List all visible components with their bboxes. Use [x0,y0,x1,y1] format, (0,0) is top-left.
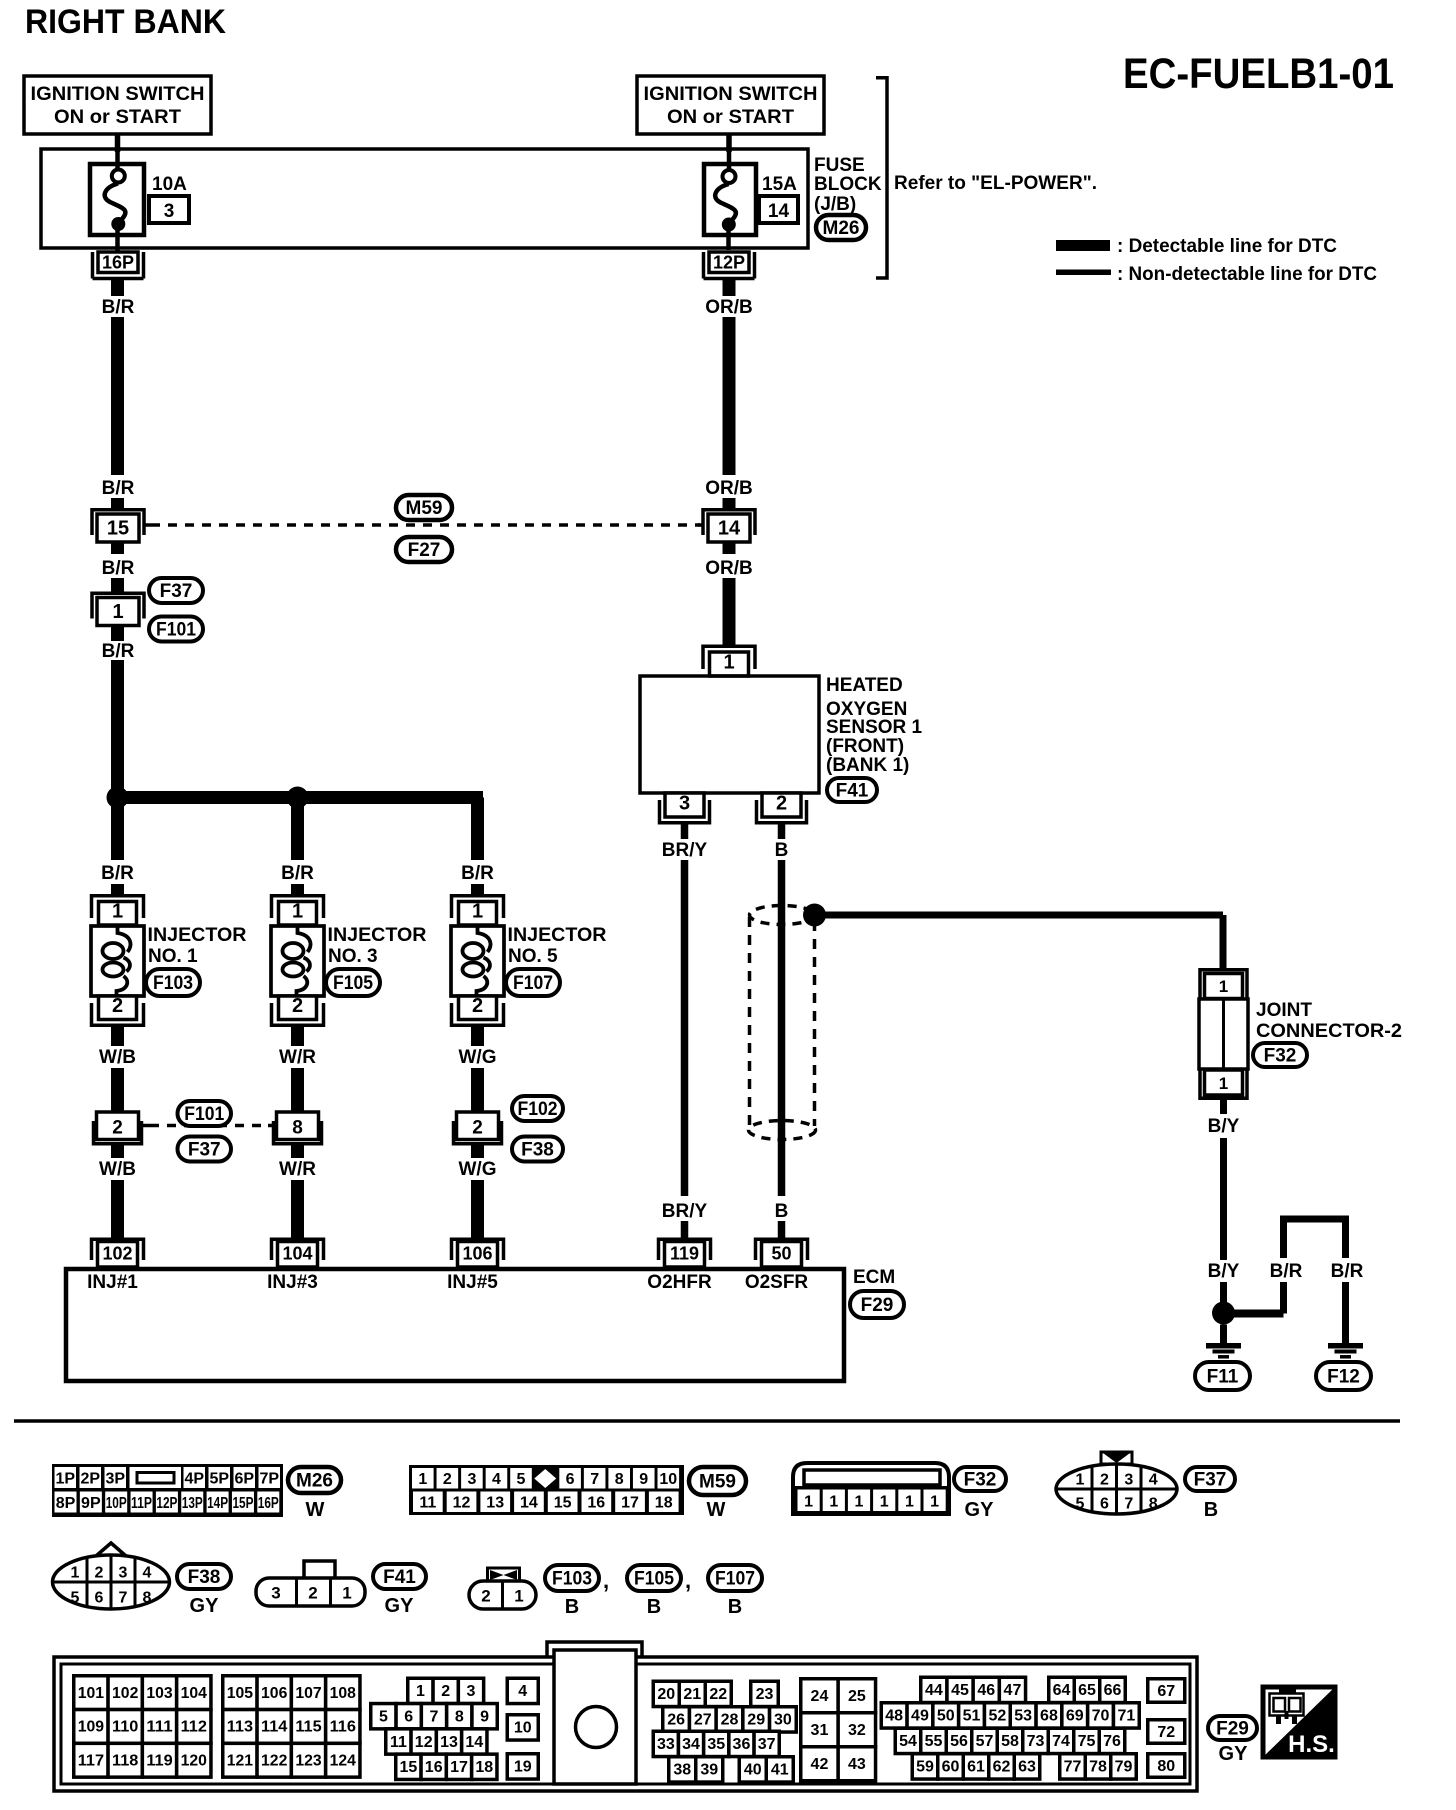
svg-text:F103: F103 [153,973,193,994]
svg-text:F32: F32 [964,1470,997,1491]
svg-text:5: 5 [379,1708,388,1725]
svg-text:F103: F103 [552,1569,592,1590]
svg-text:65: 65 [1078,1682,1096,1699]
svg-text:IGNITION SWITCH: IGNITION SWITCH [644,84,818,105]
svg-text:104: 104 [282,1244,312,1264]
svg-text:118: 118 [112,1753,138,1770]
svg-text:4: 4 [143,1565,152,1582]
svg-text:BLOCK: BLOCK [814,174,882,195]
svg-text:54: 54 [899,1733,917,1750]
svg-text:117: 117 [78,1753,104,1770]
svg-text:OR/B: OR/B [705,297,753,318]
svg-text:3: 3 [164,201,175,222]
svg-text:2: 2 [443,1471,452,1488]
svg-text:115: 115 [295,1719,321,1736]
svg-text:123: 123 [295,1753,321,1770]
svg-text:114: 114 [261,1719,287,1736]
svg-text:10: 10 [659,1471,677,1488]
svg-text:24: 24 [811,1688,829,1705]
svg-text:1: 1 [112,901,123,923]
svg-text:EC-FUELB1-01: EC-FUELB1-01 [1123,50,1394,98]
svg-text:1: 1 [1219,1074,1228,1093]
svg-text:F12: F12 [1327,1367,1360,1388]
svg-text:12: 12 [453,1495,471,1512]
svg-text:15: 15 [400,1759,418,1776]
svg-text:5P: 5P [209,1471,229,1488]
svg-text:106: 106 [261,1685,287,1702]
svg-text:W/G: W/G [459,1159,497,1180]
svg-text:2: 2 [112,995,123,1017]
svg-text:25: 25 [848,1688,866,1705]
svg-text:1: 1 [804,1494,813,1511]
svg-text:F37: F37 [188,1140,221,1161]
svg-text:B: B [565,1596,579,1618]
svg-text:1: 1 [71,1565,80,1582]
svg-text:112: 112 [181,1719,207,1736]
svg-text:ON or START: ON or START [54,107,181,128]
svg-text:O2HFR: O2HFR [647,1272,712,1293]
svg-text:F38: F38 [188,1567,221,1588]
svg-text:6P: 6P [234,1471,254,1488]
svg-text:120: 120 [181,1753,207,1770]
svg-text:13: 13 [486,1495,504,1512]
svg-text:2: 2 [776,793,787,815]
svg-text:17: 17 [450,1759,468,1776]
svg-text:F29: F29 [1216,1719,1249,1740]
svg-text:3: 3 [679,793,690,815]
svg-text:56: 56 [950,1733,968,1750]
svg-text:INJECTOR: INJECTOR [148,925,247,946]
svg-text:8: 8 [615,1471,624,1488]
svg-text:15P: 15P [232,1495,253,1512]
svg-text:122: 122 [261,1753,287,1770]
svg-text:F37: F37 [1194,1470,1227,1491]
svg-text:7: 7 [119,1590,128,1607]
svg-text:GY: GY [190,1595,220,1617]
svg-text:106: 106 [462,1244,492,1264]
svg-text:102: 102 [102,1244,132,1264]
svg-text:F102: F102 [518,1099,558,1120]
svg-text:69: 69 [1066,1708,1084,1725]
svg-text:104: 104 [181,1685,207,1702]
svg-text:4: 4 [518,1683,527,1700]
svg-text:1: 1 [829,1494,838,1511]
svg-text:119: 119 [670,1244,699,1264]
svg-text:2: 2 [95,1565,104,1582]
svg-text:121: 121 [227,1753,253,1770]
svg-text:76: 76 [1103,1733,1121,1750]
svg-text:B: B [647,1596,661,1618]
svg-text:1P: 1P [55,1471,75,1488]
svg-text:6: 6 [95,1590,104,1607]
svg-text:63: 63 [1018,1759,1036,1776]
svg-text:52: 52 [988,1708,1006,1725]
svg-text:77: 77 [1064,1759,1082,1776]
svg-text:7: 7 [1124,1496,1133,1513]
svg-text:: Non-detectable line for DTC: : Non-detectable line for DTC [1117,264,1377,285]
svg-text:1: 1 [905,1494,914,1511]
svg-text:105: 105 [227,1685,253,1702]
svg-text:INJECTOR: INJECTOR [508,925,607,946]
svg-text:111: 111 [146,1719,172,1736]
svg-text:57: 57 [976,1733,994,1750]
svg-text:OR/B: OR/B [705,478,753,499]
svg-text:NO. 5: NO. 5 [508,946,558,967]
svg-text:CONNECTOR-2: CONNECTOR-2 [1256,1021,1402,1042]
svg-text:101: 101 [78,1685,104,1702]
svg-text:7P: 7P [259,1471,279,1488]
svg-text:5: 5 [71,1590,80,1607]
svg-text:102: 102 [112,1685,138,1702]
svg-text:M59: M59 [699,1472,736,1493]
svg-text:Refer to "EL-POWER".: Refer to "EL-POWER". [894,173,1097,194]
svg-text:1: 1 [342,1584,351,1603]
svg-text:64: 64 [1053,1682,1071,1699]
svg-text:50: 50 [771,1244,791,1264]
svg-text:F27: F27 [408,540,441,561]
svg-text:62: 62 [993,1759,1011,1776]
svg-text:38: 38 [673,1762,691,1779]
svg-text:22: 22 [709,1686,727,1703]
svg-text:2: 2 [292,995,303,1017]
svg-text:F105: F105 [333,973,373,994]
svg-text:2: 2 [112,1118,123,1139]
svg-text:14: 14 [465,1734,483,1751]
svg-text:9: 9 [639,1471,648,1488]
svg-text:IGNITION SWITCH: IGNITION SWITCH [31,84,205,105]
svg-text:9P: 9P [81,1495,101,1512]
svg-text:72: 72 [1157,1724,1175,1741]
svg-text:31: 31 [811,1722,829,1739]
svg-text:W/B: W/B [99,1047,136,1068]
svg-text:B: B [775,840,789,861]
svg-text:10P: 10P [106,1495,127,1512]
svg-text:B/Y: B/Y [1208,1261,1240,1282]
svg-text:28: 28 [721,1712,739,1729]
svg-text:SENSOR 1: SENSOR 1 [826,717,923,738]
svg-text:110: 110 [112,1719,138,1736]
svg-text:INJ#3: INJ#3 [267,1272,318,1293]
svg-text:3: 3 [271,1584,280,1603]
svg-text:(BANK 1): (BANK 1) [826,755,909,776]
svg-text:12P: 12P [156,1495,177,1512]
svg-text:6: 6 [404,1708,413,1725]
svg-text:8: 8 [455,1708,464,1725]
svg-text:3P: 3P [105,1471,125,1488]
svg-text:1: 1 [514,1587,523,1606]
svg-text:32: 32 [848,1722,866,1739]
svg-text:42: 42 [811,1756,829,1773]
svg-text:FUSE: FUSE [814,155,865,176]
svg-text:58: 58 [1001,1733,1019,1750]
svg-text:15A: 15A [762,174,797,195]
svg-text:33: 33 [657,1736,675,1753]
svg-text:BR/Y: BR/Y [662,1201,708,1222]
svg-text:5: 5 [1076,1496,1085,1513]
svg-text:66: 66 [1104,1682,1122,1699]
svg-text:49: 49 [911,1708,929,1725]
svg-text:13P: 13P [182,1495,203,1512]
svg-text:18: 18 [655,1495,673,1512]
svg-text:75: 75 [1078,1733,1096,1750]
svg-text:74: 74 [1052,1733,1070,1750]
svg-text:6: 6 [566,1471,575,1488]
svg-text:2P: 2P [80,1471,100,1488]
svg-text:B/R: B/R [281,863,314,884]
svg-text:13: 13 [440,1734,458,1751]
svg-text:B/R: B/R [101,863,134,884]
svg-text:5: 5 [517,1471,526,1488]
svg-text:F101: F101 [184,1104,224,1125]
svg-text:73: 73 [1027,1733,1045,1750]
svg-text:35: 35 [707,1736,725,1753]
svg-text:47: 47 [1004,1682,1022,1699]
svg-text:45: 45 [951,1682,969,1699]
svg-text:12: 12 [415,1734,433,1751]
svg-text:9: 9 [480,1708,489,1725]
svg-text:119: 119 [146,1753,172,1770]
svg-text:1: 1 [418,1471,427,1488]
svg-text:NO. 3: NO. 3 [328,946,378,967]
svg-text:,: , [603,1568,609,1593]
svg-text:108: 108 [330,1685,356,1702]
svg-text:14: 14 [718,518,741,540]
svg-text:36: 36 [733,1736,751,1753]
svg-text:3: 3 [467,1683,476,1700]
svg-text:1: 1 [1076,1472,1085,1489]
svg-text:GY: GY [385,1595,415,1617]
svg-text:59: 59 [916,1759,934,1776]
svg-text:F29: F29 [861,1295,894,1316]
svg-text:1: 1 [1219,977,1228,996]
svg-text:3: 3 [119,1565,128,1582]
svg-text:F38: F38 [521,1140,554,1161]
svg-text:F37: F37 [160,581,193,602]
svg-text:W: W [306,1499,325,1521]
svg-text:60: 60 [942,1759,960,1776]
svg-text:14: 14 [768,201,790,222]
svg-text:2: 2 [472,1118,483,1139]
svg-text:43: 43 [848,1756,866,1773]
svg-text:16P: 16P [258,1495,279,1512]
svg-text:71: 71 [1117,1708,1135,1725]
svg-text:30: 30 [774,1712,792,1729]
svg-text:GY: GY [1219,1743,1249,1765]
svg-text:W: W [707,1499,726,1521]
svg-text:16P: 16P [102,253,134,273]
svg-text:23: 23 [756,1686,774,1703]
svg-text:B: B [1204,1499,1218,1521]
svg-text:10A: 10A [152,174,187,195]
svg-text:39: 39 [700,1762,718,1779]
svg-text:W/G: W/G [459,1047,497,1068]
svg-text:1: 1 [472,901,483,923]
svg-text:8: 8 [292,1118,303,1139]
svg-text:GY: GY [965,1499,995,1521]
svg-text:F41: F41 [836,781,869,802]
svg-text:B/R: B/R [102,558,135,579]
svg-text:JOINT: JOINT [1256,1000,1312,1021]
svg-text:NO. 1: NO. 1 [148,946,198,967]
svg-text:113: 113 [227,1719,253,1736]
svg-text:14: 14 [520,1495,538,1512]
svg-text:26: 26 [667,1712,685,1729]
svg-text:103: 103 [146,1685,172,1702]
svg-text:F101: F101 [156,620,196,641]
svg-text:12P: 12P [713,253,745,273]
svg-text:2: 2 [472,995,483,1017]
svg-text:M59: M59 [406,498,443,519]
svg-text:18: 18 [475,1759,493,1776]
svg-text:B: B [775,1201,789,1222]
svg-text:F11: F11 [1207,1367,1239,1388]
svg-text:7: 7 [430,1708,439,1725]
svg-text:48: 48 [885,1708,903,1725]
svg-text:2: 2 [481,1587,490,1606]
svg-text:46: 46 [977,1682,995,1699]
svg-text:1: 1 [292,901,303,923]
svg-text:,: , [685,1568,691,1593]
svg-text:INJ#1: INJ#1 [87,1272,138,1293]
svg-text:INJ#5: INJ#5 [447,1272,498,1293]
svg-text:11: 11 [390,1734,407,1751]
svg-text:W/R: W/R [279,1159,316,1180]
svg-text:21: 21 [683,1686,701,1703]
svg-text:1: 1 [112,601,123,623]
svg-text:B/Y: B/Y [1208,1116,1240,1137]
svg-text:41: 41 [771,1762,789,1779]
svg-text:8: 8 [1149,1496,1158,1513]
svg-text:B/R: B/R [102,478,135,499]
svg-text:W/B: W/B [99,1159,136,1180]
svg-text:1: 1 [880,1494,889,1511]
svg-text:B/R: B/R [1331,1261,1364,1282]
svg-text:RIGHT BANK: RIGHT BANK [25,3,226,41]
svg-text:3: 3 [1124,1472,1133,1489]
svg-text:78: 78 [1089,1759,1107,1776]
svg-text:ECM: ECM [853,1267,895,1288]
svg-text:51: 51 [963,1708,981,1725]
svg-text:15: 15 [107,518,129,540]
svg-text:16: 16 [587,1495,605,1512]
svg-text:4: 4 [492,1471,501,1488]
svg-text:2: 2 [1100,1472,1109,1489]
svg-text:20: 20 [657,1686,675,1703]
svg-text:1: 1 [930,1494,939,1511]
svg-text:55: 55 [925,1733,943,1750]
svg-text:8: 8 [143,1590,152,1607]
svg-text:53: 53 [1014,1708,1032,1725]
svg-text:11P: 11P [131,1495,152,1512]
svg-text:6: 6 [1100,1496,1109,1513]
svg-text:(J/B): (J/B) [814,194,856,215]
svg-text:11: 11 [419,1495,436,1512]
svg-text:7: 7 [590,1471,599,1488]
svg-text:61: 61 [967,1759,985,1776]
svg-text:B/R: B/R [1270,1261,1303,1282]
svg-text:4P: 4P [184,1471,204,1488]
svg-text:17: 17 [621,1495,639,1512]
svg-text:68: 68 [1040,1708,1058,1725]
svg-text:124: 124 [330,1753,356,1770]
svg-text:15: 15 [554,1495,572,1512]
svg-text:107: 107 [295,1685,321,1702]
svg-text:O2SFR: O2SFR [745,1272,809,1293]
svg-text:19: 19 [514,1759,532,1776]
svg-text:4: 4 [1149,1472,1158,1489]
svg-text:HEATED: HEATED [826,675,903,696]
svg-text:1: 1 [723,652,734,674]
svg-text:W/R: W/R [279,1047,316,1068]
svg-text:2: 2 [441,1683,450,1700]
svg-text:67: 67 [1157,1683,1175,1700]
svg-text:50: 50 [937,1708,955,1725]
svg-text:40: 40 [744,1762,762,1779]
svg-text:OR/B: OR/B [705,558,753,579]
svg-text:INJECTOR: INJECTOR [328,925,427,946]
svg-text:29: 29 [747,1712,765,1729]
svg-text:F107: F107 [715,1569,755,1590]
svg-text:80: 80 [1157,1758,1175,1775]
svg-text:70: 70 [1092,1708,1110,1725]
svg-text:116: 116 [330,1719,356,1736]
svg-text:F105: F105 [634,1569,674,1590]
svg-text:H.S.: H.S. [1288,1731,1335,1758]
svg-text:3: 3 [467,1471,476,1488]
svg-text:F107: F107 [513,973,553,994]
svg-text:37: 37 [758,1736,776,1753]
svg-text:44: 44 [925,1682,943,1699]
svg-text:B: B [728,1596,742,1618]
svg-text:14P: 14P [207,1495,228,1512]
svg-text:ON or START: ON or START [667,107,794,128]
svg-text:2: 2 [308,1584,317,1603]
svg-text:M26: M26 [823,218,860,239]
svg-text:F41: F41 [383,1567,416,1588]
svg-text:F32: F32 [1264,1046,1297,1067]
svg-text:27: 27 [694,1712,712,1729]
svg-text:1: 1 [855,1494,864,1511]
svg-text:M26: M26 [296,1471,333,1492]
svg-text:(FRONT): (FRONT) [826,736,904,757]
svg-text:10: 10 [514,1720,532,1737]
svg-text:1: 1 [416,1683,425,1700]
svg-text:16: 16 [425,1759,443,1776]
svg-text:34: 34 [682,1736,700,1753]
svg-text:: Detectable line for DTC: : Detectable line for DTC [1117,236,1337,257]
svg-text:79: 79 [1115,1759,1133,1776]
svg-text:8P: 8P [56,1495,76,1512]
svg-text:B/R: B/R [461,863,494,884]
svg-text:B/R: B/R [102,641,135,662]
svg-text:109: 109 [78,1719,104,1736]
svg-text:BR/Y: BR/Y [662,840,708,861]
svg-text:B/R: B/R [102,297,135,318]
